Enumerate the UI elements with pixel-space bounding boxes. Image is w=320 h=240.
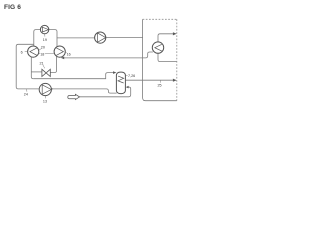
tick 13 [44, 96, 46, 99]
wire: block arrow line to tank right lower port [79, 87, 130, 97]
wire: pump P3 discharge to tank bottom (stepped) [52, 89, 117, 93]
heat exchanger HX2 [54, 46, 65, 57]
arrow at boundary end of HX3 top pipe [173, 32, 177, 35]
tick 20 [39, 49, 41, 50]
tick 18 right [45, 53, 54, 55]
wire: pump P1 outlet right, down to HX2 top [49, 30, 57, 47]
arrow at boundary end of L80 [173, 79, 177, 82]
wire: pump P2 discharge to right box [106, 37, 143, 39]
wire: branch from drop to valve 21 [31, 71, 42, 73]
wire: valve outlet right then up to HX2 bottom [50, 56, 56, 72]
dashed boundary top [143, 18, 177, 20]
svg-text:18: 18 [40, 52, 44, 56]
tick 24 [26, 89, 28, 92]
leader 7,26 [126, 75, 128, 77]
tick 16 [65, 51, 67, 54]
reference labels with leader ticks [25, 34, 161, 99]
svg-text:25: 25 [158, 84, 162, 88]
tick 6 [25, 51, 28, 53]
wire: HX3 top pipe to boundary arrow [158, 34, 173, 42]
tick 21 [43, 65, 45, 68]
pump P2 [95, 32, 106, 43]
heat exchanger HX3 [152, 42, 163, 53]
tick 25 [159, 80, 161, 82]
tank with internal heat exchanger [116, 72, 125, 94]
wire: left return line (vertical far left + top to HX1 riser + bottom to pump P3) [16, 44, 39, 89]
svg-text:7,26: 7,26 [128, 74, 135, 78]
svg-text:19: 19 [43, 38, 47, 42]
wire: HX3 bottom pipe down then right to boundary [158, 53, 177, 61]
pump P3 [39, 83, 51, 95]
svg-text:FIG 6: FIG 6 [4, 4, 21, 11]
pump P1 [40, 25, 48, 33]
junction dot at pump P3 outlet [51, 88, 52, 89]
wire: HX1 bottom drop to line L79 [31, 57, 33, 79]
dashed boundary right [176, 19, 178, 100]
heat exchanger HX1 [28, 46, 39, 57]
block arrow [68, 94, 80, 99]
wire: HX1 top riser to pump P1 [34, 30, 41, 47]
svg-text:6: 6 [21, 50, 23, 54]
svg-text:20: 20 [41, 46, 45, 50]
wire: branch to pump P2 suction [57, 37, 95, 39]
arrow into tank right port [126, 86, 129, 89]
valve 21 (bowtie) [42, 69, 50, 76]
wire: right box solid left edge and bottom [143, 19, 177, 100]
wire: long line L79 to tank riser, up and into tank top [33, 73, 113, 79]
svg-text:21: 21 [40, 61, 44, 65]
svg-text:16: 16 [67, 52, 71, 56]
wire: tank right upper port long line to boundary (L80) [126, 79, 173, 81]
arrow into HX2 bottom [61, 57, 64, 60]
svg-text:13: 13 [43, 100, 47, 104]
tick 19 [44, 34, 46, 37]
arrow into tank top port [113, 71, 117, 74]
wire: long line HX3 to HX2 (y=58) with hook up to HX3 [64, 52, 153, 58]
tick 18 left [39, 52, 40, 54]
svg-text:24: 24 [24, 93, 28, 97]
